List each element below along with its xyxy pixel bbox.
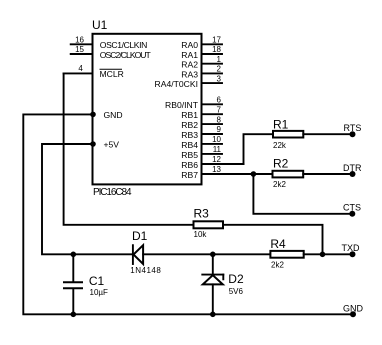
node +5V pin junction — [90, 141, 96, 147]
diode D2 zener 5V6 — [212, 254, 214, 274]
svg-text:15: 15 — [75, 45, 84, 54]
resistor R2 — [273, 171, 304, 178]
svg-text:C1: C1 — [89, 274, 105, 288]
pin 11 RB5 — [202, 153, 223, 155]
svg-text:8: 8 — [217, 115, 222, 124]
svg-text:RB6: RB6 — [181, 160, 198, 170]
node GND pin junction — [90, 112, 96, 118]
pin 17 RA0 — [202, 43, 223, 45]
svg-text:OSC2/CLKOUT: OSC2/CLKOUT — [100, 50, 152, 60]
pin 8 RB2 — [202, 123, 223, 125]
svg-text:RB1: RB1 — [181, 110, 198, 120]
svg-text:RB0/INT: RB0/INT — [165, 100, 199, 110]
node RTS — [350, 131, 356, 137]
svg-text:5V6: 5V6 — [229, 287, 244, 296]
svg-text:RA4/T0CKI: RA4/T0CKI — [155, 79, 198, 89]
wire MCLR to R3 — [64, 73, 194, 224]
pin 2 RA3 — [202, 72, 223, 74]
svg-text:10µF: 10µF — [90, 288, 109, 297]
svg-text:2k2: 2k2 — [273, 180, 286, 189]
node TXD — [350, 251, 356, 257]
wire +5V net left — [42, 144, 133, 254]
pin 1 RA2 — [202, 63, 223, 65]
svg-text:R3: R3 — [194, 207, 210, 221]
wire R1 to RTS — [303, 133, 352, 135]
svg-text:RA2: RA2 — [181, 60, 198, 70]
capacitor C1 — [63, 281, 83, 283]
wire C1 top lead — [72, 254, 74, 281]
svg-text:16: 16 — [75, 36, 84, 45]
svg-text:PIC16C84: PIC16C84 — [93, 187, 132, 198]
svg-text:2k2: 2k2 — [271, 260, 284, 269]
pin 15 OSC2/CLKOUT — [71, 53, 93, 55]
svg-text:17: 17 — [212, 36, 221, 45]
svg-text:+5V: +5V — [104, 139, 120, 149]
svg-text:RB3: RB3 — [181, 130, 198, 140]
svg-text:GND: GND — [343, 303, 364, 313]
svg-text:RB2: RB2 — [181, 120, 198, 130]
resistor R1 — [273, 131, 303, 138]
svg-text:2: 2 — [217, 65, 222, 74]
resistor R3 — [194, 221, 224, 228]
svg-text:D1: D1 — [132, 229, 148, 243]
svg-text:4: 4 — [78, 64, 83, 73]
node CTS — [349, 211, 355, 217]
pin 9 RB3 — [202, 133, 223, 135]
pin 4 MCLR — [64, 72, 93, 74]
svg-text:RB7: RB7 — [181, 170, 198, 180]
svg-text:1N4148: 1N4148 — [130, 266, 161, 275]
svg-text:RB4: RB4 — [181, 140, 198, 150]
wire C1 bottom lead — [72, 289, 74, 314]
svg-text:R1: R1 — [273, 117, 289, 131]
node GND terminal — [350, 311, 356, 317]
wire junction to CTS — [253, 174, 352, 214]
svg-text:MCLR: MCLR — [100, 69, 124, 79]
pin 3 RA4/T0CKI — [202, 82, 223, 84]
svg-text:R4: R4 — [270, 237, 286, 251]
svg-text:RA0: RA0 — [181, 40, 198, 50]
pin 10 RB4 — [202, 143, 223, 145]
pin 12 RB6 — [202, 163, 244, 165]
pin 6 RB0/INT — [202, 103, 223, 105]
node R3/TXD junction — [320, 252, 326, 258]
wire RB6 to R1 — [244, 134, 274, 164]
svg-text:D2: D2 — [228, 272, 244, 286]
svg-text:11: 11 — [213, 145, 222, 154]
svg-text:10k: 10k — [194, 230, 208, 239]
node D2 bottom junction — [210, 312, 216, 318]
svg-text:12: 12 — [212, 155, 221, 164]
svg-text:13: 13 — [212, 165, 221, 174]
svg-text:7: 7 — [217, 105, 222, 114]
svg-text:9: 9 — [217, 125, 222, 134]
svg-text:RA3: RA3 — [181, 69, 198, 79]
svg-text:TXD: TXD — [342, 243, 361, 253]
wire R3 right to TXD node — [223, 225, 323, 255]
diode D1 1N4148 — [132, 245, 134, 264]
node C1 bottom junction — [71, 312, 77, 318]
wire R2 to DTR — [303, 173, 352, 175]
svg-text:RB5: RB5 — [181, 150, 198, 160]
pin 18 RA1 — [202, 53, 223, 55]
svg-text:RA1: RA1 — [181, 50, 198, 60]
svg-text:10: 10 — [212, 135, 221, 144]
svg-text:18: 18 — [212, 45, 221, 54]
svg-text:DTR: DTR — [343, 163, 362, 173]
pin 7 RB1 — [202, 113, 223, 115]
wire R4 to TXD — [304, 253, 353, 255]
svg-text:22k: 22k — [273, 141, 287, 150]
node C1 top junction — [71, 252, 77, 258]
node RB7 junction — [251, 171, 257, 177]
node DTR — [350, 171, 356, 177]
svg-text:R2: R2 — [273, 157, 289, 171]
svg-text:1: 1 — [217, 55, 222, 64]
svg-text:6: 6 — [217, 96, 222, 105]
svg-text:OSC1/CLKIN: OSC1/CLKIN — [100, 40, 148, 50]
resistor R4 — [270, 251, 303, 258]
wire D1 to R4 — [143, 253, 270, 255]
pin 16 OSC1/CLKIN — [71, 43, 93, 45]
wire GND net left — [23, 114, 353, 314]
pin 13 RB7 — [202, 173, 273, 175]
op-amp U1 — [93, 34, 202, 185]
svg-text:CTS: CTS — [343, 203, 361, 213]
svg-text:3: 3 — [217, 74, 222, 83]
svg-text:GND: GND — [104, 110, 123, 120]
svg-text:RTS: RTS — [344, 123, 362, 133]
node D2 top junction — [210, 252, 216, 258]
svg-text:U1: U1 — [92, 18, 108, 32]
